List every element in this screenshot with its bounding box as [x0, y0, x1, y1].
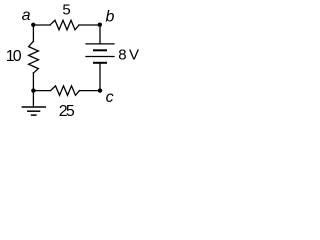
svg-text:5: 5 [62, 2, 70, 19]
resistor R10 (left vertical) [29, 41, 39, 73]
battery V1 short plate top [93, 49, 107, 51]
wire a to R5 left lead [33, 24, 50, 26]
wire battery to c [99, 63, 101, 91]
battery V1 short plate bottom [93, 62, 107, 64]
wire b down to battery [99, 25, 101, 44]
battery V1 long plate bottom [86, 56, 114, 58]
wire R5 to b [79, 24, 100, 26]
ground bar 2 [27, 110, 40, 112]
wire R25 to c [80, 90, 101, 92]
svg-text:8 V: 8 V [118, 47, 139, 64]
svg-text:b: b [105, 9, 114, 26]
ground stem [32, 91, 34, 107]
resistor R5 (top) [50, 20, 79, 30]
battery V1 long plate top [86, 43, 114, 45]
resistor R25 (bottom) [51, 86, 80, 95]
svg-text:10: 10 [6, 48, 22, 65]
node c dot [98, 88, 102, 92]
node b dot [98, 23, 102, 27]
svg-text:25: 25 [59, 103, 75, 120]
ground bar 1 [22, 106, 46, 108]
wire junction to R25 [33, 90, 50, 92]
wire R10 to junction [32, 73, 34, 91]
svg-text:c: c [106, 89, 114, 106]
ground bar 3 [31, 114, 37, 116]
junction dot (ground node) [31, 88, 35, 92]
wire a down to R10 [32, 25, 34, 41]
svg-text:a: a [22, 7, 31, 24]
node a dot [31, 23, 35, 27]
